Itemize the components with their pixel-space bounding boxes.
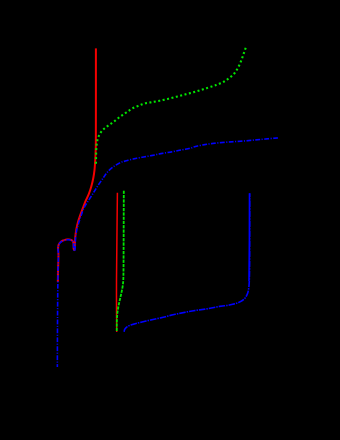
red solid curve, main plot	[58, 48, 96, 282]
blue near-solid vertical segment, inset right branch	[248, 193, 251, 281]
green dotted curve, main plot	[96, 48, 246, 164]
red solid vertical line, inset	[115, 193, 118, 332]
blue dash-dot curve, inset	[124, 193, 250, 332]
green dashed line, inset	[117, 191, 124, 332]
blue dash-dot curve, main plot	[57, 138, 278, 367]
